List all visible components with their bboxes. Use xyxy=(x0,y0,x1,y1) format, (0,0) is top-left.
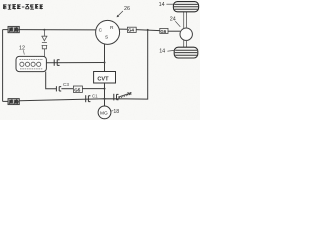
gear box G4 xyxy=(127,27,136,33)
wire: lead from frame to brake box 30 xyxy=(3,29,8,31)
label 24 with leader xyxy=(170,17,181,27)
one-way clutch / damper symbol on vertical x=44.4 xyxy=(41,30,47,63)
svg-text:CVT: CVT xyxy=(97,76,109,82)
svg-text:12: 12 xyxy=(19,45,25,51)
paper background xyxy=(0,0,200,120)
svg-text:G4: G4 xyxy=(128,28,134,33)
label 14 top with leader xyxy=(159,2,174,8)
wire: lead from frame to brake box 32 xyxy=(3,100,8,102)
wire: shaft CVT to MG xyxy=(104,83,106,106)
node: junction on CVT shaft at y=88.6 xyxy=(104,88,106,90)
node: junction to bypass vertical xyxy=(147,29,149,31)
label 18 with leader xyxy=(111,109,119,115)
differential 24 (circle on axle) xyxy=(180,28,192,40)
clutch (damper) on mid line xyxy=(54,59,59,65)
svg-text:26: 26 xyxy=(124,6,130,12)
wire: top horizontal line from box 30 to planetary circle xyxy=(19,29,96,31)
planetary gear unit 26 (big circle C R S) xyxy=(96,20,120,44)
svg-text:14: 14 xyxy=(159,49,165,55)
engine 12 (rounded box with 4 cylinders) xyxy=(16,56,46,71)
wire: from planetary R to gear box G4 xyxy=(119,28,127,30)
title 第二故障-安全模式 (simulated CJK glyph strokes) xyxy=(3,5,43,10)
wire: segment from G5 to CVT shaft xyxy=(82,88,104,90)
svg-text:S: S xyxy=(105,35,108,41)
wire: segment to gear box G5 xyxy=(61,88,73,90)
one-way clutch wedge 22 (hatched ramp) xyxy=(118,93,131,99)
clutch C2 on bottom line right of shaft xyxy=(114,94,119,101)
node: junction mid line / shaft xyxy=(104,62,106,64)
svg-text:G5: G5 xyxy=(74,88,81,93)
label 14 bottom with leader xyxy=(159,49,174,55)
clutch C1 on bottom line xyxy=(86,95,91,102)
svg-text:22: 22 xyxy=(127,91,133,97)
svg-text:G6: G6 xyxy=(160,29,166,34)
svg-text:MG: MG xyxy=(100,111,108,117)
wire: bottom line from box 32 to right corner and bypass vertical xyxy=(19,30,147,101)
wire: engine output mid line y=62.6 xyxy=(46,62,104,64)
wire: G4 to G6 with junction xyxy=(136,30,160,31)
node: junction at one-way clutch column xyxy=(43,29,45,31)
svg-text:C3: C3 xyxy=(63,82,69,87)
clutch C3 on line y=88.8 xyxy=(56,86,61,91)
brake box 32 (bottom-left hatched box) xyxy=(8,99,19,105)
CVT box 16 xyxy=(94,72,116,84)
motor generator MG 18 xyxy=(98,106,111,119)
wheel 14 (top tire) xyxy=(173,2,198,12)
wire: left frame vertical xyxy=(2,30,4,102)
brake box 30 (top-left hatched box) xyxy=(8,26,19,32)
label 26 with arrow xyxy=(117,6,130,17)
svg-text:R: R xyxy=(110,25,114,31)
wheel 14 (bottom tire) xyxy=(174,47,198,58)
svg-text:24: 24 xyxy=(170,17,176,23)
gear box G6 xyxy=(160,28,168,33)
axle shaft lower (double line) xyxy=(184,40,187,47)
wire: G6 to differential xyxy=(168,30,180,32)
svg-text:C: C xyxy=(99,28,103,34)
svg-text:14: 14 xyxy=(159,2,165,8)
label 12 with leader xyxy=(19,45,25,54)
wire: CVT input shaft from planetary S xyxy=(104,44,106,72)
wire: engine side vertical down to lower line xyxy=(46,72,57,89)
gear box G5 xyxy=(73,86,82,93)
svg-text:18: 18 xyxy=(113,109,119,115)
node: junction bottom line / MG shaft xyxy=(104,98,106,100)
axle shaft upper (double line) xyxy=(184,12,187,29)
svg-text:C1: C1 xyxy=(92,94,98,99)
